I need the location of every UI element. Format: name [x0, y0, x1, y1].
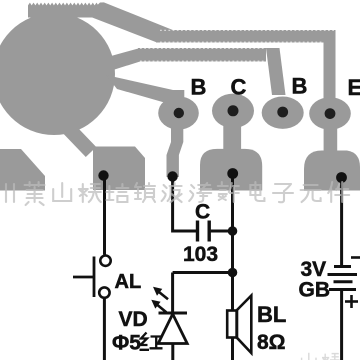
- wire: battery bottom to edge: [340, 290, 343, 360]
- PCB bottom bell pad under E: [304, 151, 360, 191]
- wire: LED branch vertical to LED top: [171, 273, 174, 314]
- PCB kinked trace below pad B1: [167, 122, 184, 177]
- switch AL handle: [73, 276, 94, 279]
- PCB bottom center pad (trapezoid): [93, 147, 145, 191]
- svg-text:8Ω: 8Ω: [257, 331, 286, 354]
- PCB top serrated trace band: [28, 3, 104, 18]
- PCB outer trace band (to E pad): [156, 30, 336, 43]
- LED arrow 1: [153, 287, 168, 300]
- PCB bottom bell pad under C: [200, 149, 262, 191]
- svg-text:Φ5: Φ5: [112, 332, 141, 355]
- hole dot on bell pad under C: [227, 168, 238, 179]
- svg-text:C: C: [231, 75, 247, 100]
- PCB pad B2: [262, 97, 304, 129]
- switch AL bottom contact circle: [99, 287, 109, 297]
- hole dot on center pad: [98, 170, 108, 180]
- battery plus sign: [345, 295, 358, 308]
- wire: center pad dot down to switch AL: [103, 176, 106, 255]
- hole dot on pad E: [325, 108, 336, 119]
- PCB inner trace descender to pad B2: [266, 48, 286, 95]
- PCB inner trace band diagonal from circle: [111, 48, 140, 70]
- PCB trace diagonal from circle to pad B1: [106, 75, 173, 105]
- battery GB plates: [328, 267, 358, 290]
- PCB bottom-left corner trace: [0, 149, 45, 191]
- serration texture on trace band edges: [140, 30, 335, 61]
- PCB trace vertical above pad B1: [173, 90, 185, 113]
- svg-text:VD: VD: [119, 308, 148, 331]
- svg-text:AL: AL: [115, 271, 142, 293]
- PCB pad C: [212, 94, 254, 128]
- PCB pad E: [309, 97, 351, 129]
- junction dot at capacitor/main wire: [228, 226, 238, 236]
- LED VD cathode bar: [159, 312, 188, 315]
- svg-text:103: 103: [183, 243, 218, 266]
- speaker BL coil rectangle: [227, 311, 236, 338]
- svg-text:C: C: [195, 201, 210, 224]
- switch AL actuator bar: [93, 257, 96, 298]
- PCB big round pad (top-left copper circle): [0, 13, 115, 135]
- PCB trace below pad C: [223, 122, 241, 152]
- PCB trace from circle bottom to center pad: [67, 127, 91, 152]
- hole dot on kinked trace end: [167, 171, 177, 181]
- svg-text:E: E: [348, 75, 360, 100]
- svg-text:GB: GB: [299, 279, 331, 302]
- wire: LED branch horizontal: [173, 271, 233, 274]
- watermark text line (pseudo CJK): [0, 182, 349, 205]
- hole dot on pad B1: [174, 108, 184, 118]
- PCB outer trace vertical segment above pad E: [324, 30, 336, 102]
- PCB trace below pad E: [324, 122, 338, 154]
- wire: speaker bottom to edge: [231, 338, 234, 360]
- speaker BL cone: [237, 296, 251, 354]
- wire: bell pad C dot down to speaker: [231, 174, 234, 311]
- watermark bottom fragment (pseudo CJK): [302, 353, 340, 360]
- wire: switch AL bottom down to edge: [103, 298, 106, 360]
- svg-text:B: B: [191, 75, 207, 100]
- svg-text:B: B: [292, 74, 308, 99]
- label hong (red) character: [140, 333, 163, 350]
- PCB pad B1: [158, 96, 199, 129]
- LED VD triangle: [158, 314, 187, 344]
- wire: bell pad E dot down to battery: [340, 178, 343, 267]
- wire: capacitor C right lead: [211, 230, 233, 233]
- wire: kinked-trace dot down and right to capacitor C: [173, 177, 196, 231]
- hole dot on pad B2: [277, 107, 288, 118]
- junction dot at LED branch/main wire: [228, 268, 238, 278]
- hole dot on pad C: [228, 105, 239, 116]
- capacitor C plates: [198, 221, 210, 242]
- PCB trace diagonal from top band to outer band: [87, 2, 174, 42]
- battery minus sign: [351, 256, 360, 259]
- svg-text:BL: BL: [257, 302, 286, 327]
- PCB inner trace band: [138, 48, 266, 62]
- LED arrow 2: [151, 300, 166, 313]
- wire: LED bottom to edge: [171, 344, 174, 360]
- hole dot on bell pad under E: [336, 172, 347, 183]
- switch AL top contact circle: [100, 256, 110, 266]
